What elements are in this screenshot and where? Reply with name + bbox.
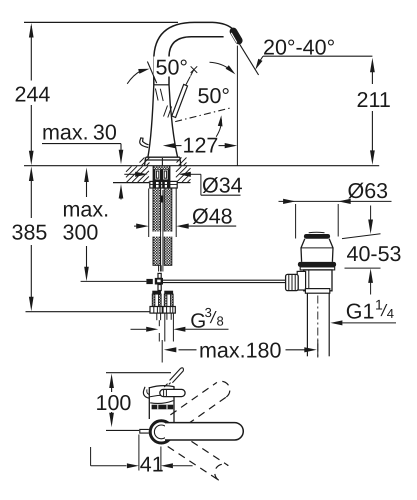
drain body bbox=[304, 270, 332, 291]
linkage joint bbox=[158, 273, 161, 278]
20-40 underline bbox=[263, 55, 372, 57]
plan spout ring bbox=[150, 421, 172, 443]
counter underside line right bbox=[176, 182, 191, 184]
lever dashed position bbox=[175, 108, 230, 122]
braided hose right bbox=[164, 188, 172, 265]
rod below hoses bbox=[158, 265, 160, 271]
body shoulder line bbox=[154, 84, 169, 86]
diameter 34 arrows bbox=[124, 173, 135, 175]
spout swivel limit line bbox=[147, 62, 156, 84]
svg-text:100: 100 bbox=[96, 391, 132, 415]
fitting nut left bbox=[150, 307, 162, 314]
plan spout tube bbox=[165, 423, 243, 440]
swivel curved arrow right bbox=[210, 62, 231, 70]
G1 1/4 leader bbox=[330, 320, 342, 325]
max 180 dimension line bbox=[179, 349, 197, 351]
max. 30 upper arrow bbox=[120, 144, 122, 152]
dimension max 300 line bbox=[84, 168, 89, 183]
svg-text:50°: 50° bbox=[198, 84, 231, 108]
drain plug neck bbox=[301, 239, 305, 262]
diameter 63 extension lines bbox=[295, 204, 297, 239]
countertop surface line bbox=[24, 165, 379, 167]
top reference line (spout top level) bbox=[24, 21, 178, 23]
40-53 bottom arrow bbox=[370, 281, 372, 295]
svg-text:41: 41 bbox=[140, 453, 164, 477]
counter hatching left bbox=[126, 166, 132, 172]
label 211 bbox=[355, 85, 393, 110]
counter hatching right bbox=[176, 166, 182, 172]
body interior detail lines bbox=[155, 89, 158, 101]
plan hook left bbox=[143, 387, 149, 398]
hose fitting right bbox=[164, 291, 173, 294]
max. 30 leader underline bbox=[42, 143, 121, 145]
svg-text:385: 385 bbox=[12, 221, 48, 245]
pop-up rod knob bbox=[140, 138, 149, 148]
lever tip extension with cross bbox=[186, 70, 194, 85]
hose break band bbox=[151, 232, 176, 237]
label 41 bbox=[140, 456, 160, 473]
hose tail right bbox=[164, 313, 166, 341]
svg-text:4: 4 bbox=[387, 306, 394, 321]
lever angle arc with arrow bbox=[216, 120, 221, 137]
40-53 top arrow bbox=[370, 206, 372, 222]
dimension 385 line with arrows bbox=[29, 167, 34, 182]
svg-text:50°: 50° bbox=[156, 56, 189, 80]
drain flange lip bbox=[300, 267, 335, 270]
dimension 127 arrows bbox=[163, 143, 176, 148]
diameter 63 dimension line bbox=[279, 200, 392, 202]
drain lever housing bbox=[297, 271, 305, 290]
base center line bbox=[161, 158, 163, 166]
drain seal ring (dark) bbox=[298, 262, 336, 267]
hose fitting left bbox=[152, 291, 161, 294]
20-40 leader arrow bbox=[260, 56, 264, 61]
mounting nut bbox=[150, 181, 177, 188]
diameter 48 extension lines bbox=[148, 189, 150, 238]
body right edge bbox=[169, 85, 178, 158]
drain plug knob bbox=[309, 231, 325, 234]
threaded shank bbox=[153, 166, 171, 182]
diameter 48 arrows bbox=[134, 225, 137, 227]
lower reference line (hose ends level) bbox=[26, 311, 151, 313]
plan body dark band bbox=[152, 405, 174, 410]
diameter 34 leader bend bbox=[200, 174, 202, 195]
40-53 top extension bbox=[342, 234, 381, 239]
svg-text:G1: G1 bbox=[346, 300, 375, 324]
svg-text:40-53: 40-53 bbox=[347, 242, 402, 266]
dimension 100 bbox=[109, 374, 114, 389]
base seal hatching right bbox=[177, 158, 182, 163]
rod end cap left bbox=[146, 279, 152, 284]
dimension 244 line with arrows bbox=[30, 26, 32, 81]
dimension 41 line bbox=[91, 465, 127, 467]
svg-text:244: 244 bbox=[15, 83, 51, 107]
body left edge bbox=[148, 85, 154, 158]
40-53 bottom extension bbox=[345, 267, 381, 269]
hose tail left bbox=[156, 313, 158, 320]
fitting nut right bbox=[163, 307, 175, 314]
svg-text:Ø34: Ø34 bbox=[202, 174, 243, 198]
plan left tab bbox=[140, 429, 149, 433]
reference line to rod bbox=[81, 280, 147, 282]
plan lever dashed position bbox=[170, 368, 181, 380]
jet angle line bbox=[239, 44, 258, 75]
swivel curved arrow left bbox=[127, 71, 141, 84]
svg-text:8: 8 bbox=[217, 314, 224, 329]
svg-text:max.180: max.180 bbox=[199, 339, 282, 363]
plan top reference line bbox=[106, 372, 171, 374]
drain tube centerline bbox=[317, 296, 319, 358]
horizontal rod to drain bbox=[163, 279, 285, 281]
svg-text:127: 127 bbox=[183, 134, 219, 158]
G 3/8 arrows bbox=[131, 328, 147, 330]
label 50 deg swivel bbox=[154, 57, 191, 77]
plan dashed tube upper bbox=[177, 397, 226, 432]
spout inner profile bbox=[169, 37, 224, 85]
dimension 211 line bbox=[370, 58, 375, 73]
braided hose left bbox=[153, 188, 161, 265]
pop-up rod in shank bbox=[160, 190, 162, 272]
max 180 extension right bbox=[317, 340, 319, 358]
svg-text:max.: max. bbox=[63, 198, 110, 222]
svg-text:Ø48: Ø48 bbox=[192, 204, 233, 228]
plan dashed tube lower bbox=[168, 447, 219, 481]
plan bottom reference line bbox=[106, 429, 139, 431]
plan spout inner circle bbox=[154, 425, 168, 439]
spout tip extension line bbox=[236, 46, 238, 166]
plan lever solid bbox=[160, 389, 185, 396]
plan body outline bbox=[148, 387, 150, 419]
41 extension lines bbox=[138, 435, 140, 471]
base plate bbox=[146, 156, 180, 158]
spout outer profile bbox=[154, 22, 234, 84]
svg-text:max. 30: max. 30 bbox=[42, 121, 117, 145]
max 180 extension left bbox=[161, 340, 163, 363]
counter underside line left bbox=[113, 182, 149, 184]
max. 30 lower arrow bbox=[120, 193, 122, 200]
knurled knob bbox=[286, 274, 299, 290]
base seal hatching left bbox=[140, 158, 145, 163]
diameter 34 underline bbox=[201, 194, 241, 196]
svg-text:211: 211 bbox=[357, 88, 391, 112]
drain tube bbox=[306, 293, 308, 356]
svg-text:Ø63: Ø63 bbox=[348, 179, 389, 203]
lever handle solid bbox=[172, 84, 188, 117]
spout outlet face (dark) bbox=[233, 31, 238, 40]
drain body end band bbox=[305, 289, 329, 294]
svg-text:300: 300 bbox=[63, 221, 99, 245]
